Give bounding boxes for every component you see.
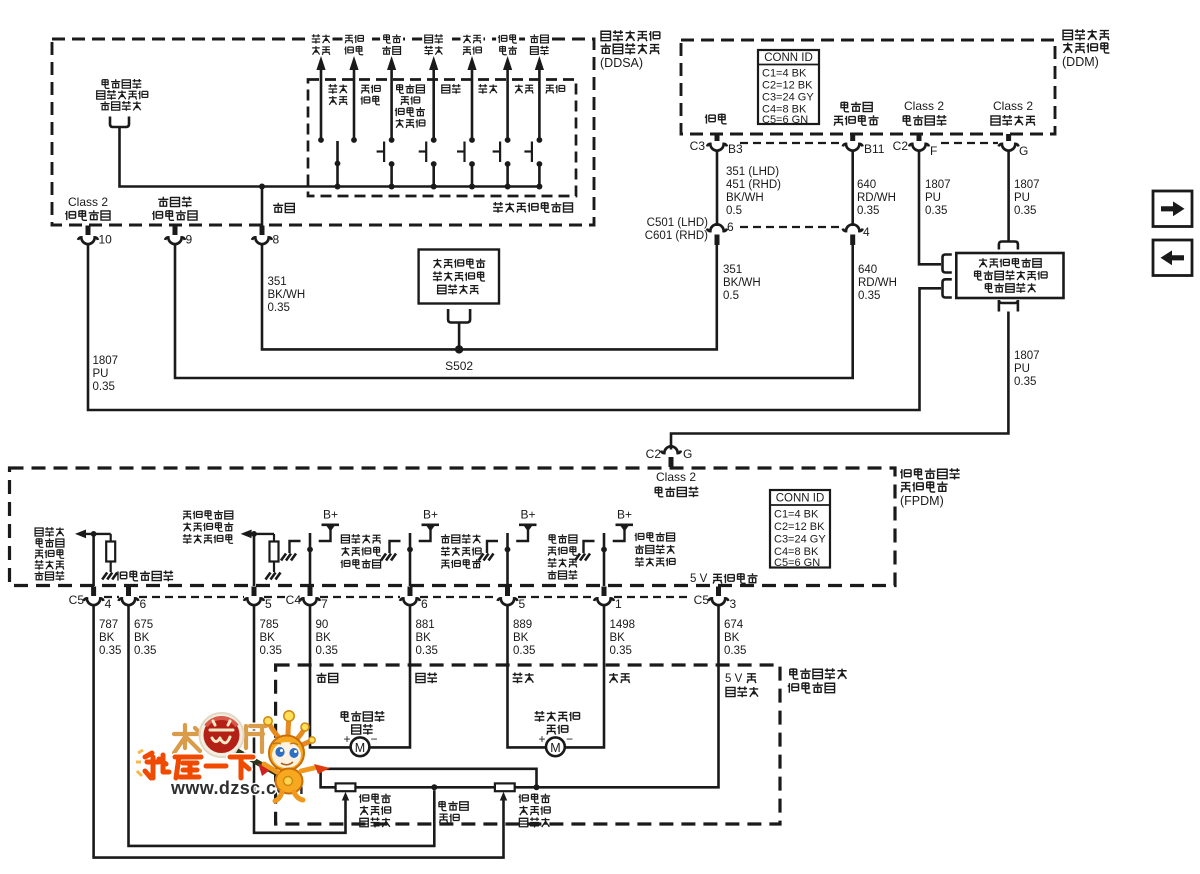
wire pot1 right lead to pot2 left lead [355,786,495,789]
wire label 1498 BK 0.35 [610,619,636,657]
ground contact (mirror motor right control) [381,541,401,561]
wire label 1807 PU 0.35 (left) [93,355,119,393]
svg-text:881: 881 [416,619,435,631]
label fold/unfold export [395,84,425,128]
wire label 90 BK 0.35 [316,619,338,657]
wire arrow junction to pin C5-4 [92,534,95,586]
svg-text:PU: PU [93,368,109,380]
svg-text:0.5: 0.5 [726,205,742,217]
label horizontal position sensor signal [359,793,390,827]
ground contact (mirror motor left control) [281,541,301,561]
svg-text:C2: C2 [893,139,909,153]
wire 785 BK: pin C5-5 to pot1 wiper [254,606,346,833]
label mirror motor control [441,534,481,568]
connector pin 1 (FPDM bottom) [594,587,622,612]
svg-text:0.35: 0.35 [260,645,282,657]
connector C501 pin 6 [707,220,734,245]
label select-left [328,84,347,105]
wire battery 640 RD/WH: pin9 to C501-4 [175,245,853,379]
bracket upper-left of DLC box [943,255,952,273]
svg-text:0.35: 0.35 [724,645,746,657]
module box FPDM (front passenger door module) [10,468,896,586]
svg-text:Class 2: Class 2 [656,470,696,484]
svg-text:G: G [1019,144,1028,158]
nav box arrow right [1153,191,1192,227]
wire label 787 BK 0.35 [99,619,121,657]
svg-text:4: 4 [105,597,112,611]
resistor pull (vertical position) [106,534,115,572]
svg-text:−: − [370,732,377,746]
svg-text:6: 6 [727,220,734,234]
wire Class2 1807 PU: pin10 to DLC lower bracket [88,245,941,411]
reference: power window schematic in door [97,79,148,111]
svg-text:M: M [355,741,365,755]
svg-text:+: + [538,732,545,746]
wire B11 to C501 pin 4 [851,150,854,226]
potentiometer horizontal position sensor [336,783,356,791]
connector pin B11 [843,134,885,156]
connector C2 pin G at FPDM top [646,446,693,467]
box exterior mirror - passenger side [276,665,780,824]
label ground (DDSA pin 8) [273,203,294,213]
wire G to DLC top bracket [1007,150,1010,242]
logic circuit arrow down [461,32,484,143]
reference: door control module schematic box [419,250,499,304]
ground (vertical sensor resistor) [102,573,117,580]
wire DLC bottom to FPDM C2-G [671,312,1008,450]
svg-text:C3=24 GY: C3=24 GY [762,92,814,104]
svg-text:PU: PU [1014,192,1030,204]
B+ supply (mirror motor down control) [516,508,536,542]
wire ground 351 BK/WH: pin8 to C501-6 via S502 [262,245,717,350]
svg-text:1807: 1807 [93,355,119,367]
wire label 674 BK 0.35 [724,619,746,657]
svg-text:BK: BK [260,632,276,644]
label wire right [416,673,437,684]
wiper arrow pot2 [500,792,507,801]
connector C501 dashes [740,226,842,228]
svg-text:5: 5 [265,597,272,611]
wire 881 BK: pin 6 to horizontal motor - [369,606,411,748]
svg-text:0.35: 0.35 [99,645,121,657]
svg-text:C1=4 BK: C1=4 BK [762,68,807,80]
svg-text:C5: C5 [69,593,85,607]
label DDSA name [600,30,660,70]
module box DDSA (driver door switch assembly) [52,39,594,225]
motor M horizontal [343,732,377,756]
junction dot low reference [431,784,437,790]
svg-text:5 V: 5 V [725,673,743,685]
label battery positive voltage (DDM) [834,102,878,126]
svg-text:BK: BK [134,632,150,644]
svg-text:675: 675 [134,619,153,631]
connector pin 6 (FPDM bottom) [400,587,428,612]
svg-text:4: 4 [863,225,870,239]
connector C501 pin 4 [843,224,870,245]
svg-text:RD/WH: RD/WH [857,192,896,204]
watermark dzsc logo [136,713,304,798]
bracket lower-left of DLC box [943,279,952,297]
svg-text:BK: BK [610,632,626,644]
push switch contact [377,142,395,187]
switch pole wire to pin (up control) [601,533,607,586]
off-page bracket below door control module box [448,309,470,323]
svg-text:C5: C5 [694,593,710,607]
svg-text:C2=12 BK: C2=12 BK [762,80,813,92]
svg-text:1807: 1807 [925,179,951,191]
logic circuit arrow select-right [343,32,366,143]
wire label 675 BK 0.35 [134,619,156,657]
switch pole wire to pin (left control) [307,533,313,586]
wire label 1807 PU 0.35 (G) [1014,179,1040,217]
connector C2 pin F [893,134,938,158]
label ground (DDM) [705,114,727,124]
junction dots on ground bus [259,184,542,190]
label Class 2 serial data (FPDM) [655,470,698,497]
svg-text:C2=12 BK: C2=12 BK [774,521,825,533]
svg-text:S502: S502 [445,359,473,373]
connector dashes C2 [941,142,998,144]
module box DDM (driver door module) [681,40,1055,134]
svg-text:B3: B3 [728,142,743,156]
svg-text:PU: PU [1014,363,1030,375]
svg-text:BK/WH: BK/WH [723,277,761,289]
wire F to DLC upper bracket [919,150,941,264]
svg-text:+: + [343,732,350,746]
svg-text:351: 351 [723,264,742,276]
svg-text:0.35: 0.35 [134,645,156,657]
svg-text:6: 6 [140,597,147,611]
svg-text:351: 351 [268,276,287,288]
svg-text:0.35: 0.35 [513,645,535,657]
logic circuit arrow fold [380,32,403,143]
svg-text:90: 90 [316,619,329,631]
label left [515,84,533,93]
push switch contact [493,142,511,187]
box exterior mirror switch [308,80,576,197]
wire 5V bypass loop to pot1 left [321,769,537,788]
svg-text:M: M [550,741,560,755]
label 5V reference [690,573,758,585]
svg-text:Class 2: Class 2 [68,195,108,209]
connector dashes C3 [740,142,843,144]
svg-text:(DDSA): (DDSA) [600,56,643,70]
svg-text:5: 5 [519,597,526,611]
logic circuit arrow select-left [310,32,333,143]
svg-text:7: 7 [321,597,328,611]
svg-text:674: 674 [724,619,744,631]
svg-text:C5=6 GN: C5=6 GN [774,557,820,569]
svg-text:1807: 1807 [1014,179,1040,191]
watermark mascot [264,711,330,801]
connector pin 3 (FPDM bottom) [709,587,737,612]
CONN ID table DDM [758,50,819,126]
nav box arrow left [1153,240,1192,276]
label wire down [513,673,534,684]
wire B3 to C501 pin 6 [716,150,719,226]
B+ supply (mirror motor up control) [613,508,633,542]
connector dashed line (FPDM bottom) [104,596,692,598]
svg-text:C3=24 GY: C3=24 GY [774,534,826,546]
ground (horizontal sensor resistor) [266,573,281,580]
label Class 2 serial data (DDM pin G) [991,99,1035,126]
label exterior mirror passenger side [788,668,847,693]
logic circuit arrow left [496,32,519,143]
connector pin 10 of DDSA [78,226,112,247]
label Class 2 serial data (DDSA pin 10) [65,195,110,220]
wire 787 BK: pin C5-4 to pot2 wiper [94,606,504,858]
svg-text:B+: B+ [323,508,338,522]
label battery positive voltage (DDSA pin 9) [152,197,197,221]
svg-text:0.35: 0.35 [316,645,338,657]
B+ supply (mirror motor right control) [419,508,439,542]
svg-text:8: 8 [273,233,280,247]
wire label 351/451 BK/WH 0.5 [726,166,781,217]
push switch contact [419,142,437,187]
label FPDM name [900,468,960,508]
connector pin 5 (FPDM bottom) [498,587,526,612]
label exterior mirror switch [493,202,572,213]
connector pin 8 of DDSA [252,226,279,247]
label down [478,84,497,94]
bracket bottom of DLC box [999,300,1018,312]
logic circuit arrow up [422,32,445,143]
off-page bracket below reference [110,117,129,128]
wire label 889 BK 0.35 [513,619,535,657]
label horizontal direction motor [341,711,384,735]
wire 889 BK: pin 5 to vertical motor + [508,606,548,748]
connector pin 7 (FPDM bottom) [300,587,328,612]
signal arrow (horizontal position) [241,530,274,539]
wiper arrow pot1 [342,792,349,801]
svg-text:0.35: 0.35 [925,205,947,217]
wire label 1807 PU 0.35 (to FPDM) [1014,350,1040,388]
wire 1498 BK: pin 1 to vertical motor - [564,606,604,748]
label 5V reference (mirror) [725,673,758,697]
label wire up [609,673,630,683]
svg-text:BK: BK [513,632,529,644]
svg-text:B+: B+ [520,508,535,522]
svg-text:PU: PU [925,192,941,204]
svg-text:CONN ID: CONN ID [776,493,825,505]
wire arrow junction to pin C5-5 [253,534,256,586]
svg-text:10: 10 [99,233,113,247]
connector pin G [999,134,1029,158]
svg-text:BK: BK [416,632,432,644]
connector pin 9 of DDSA [165,226,192,247]
svg-text:5 V: 5 V [690,573,708,585]
svg-text:787: 787 [99,619,118,631]
potentiometer vertical position sensor [495,783,515,791]
svg-text:CONN ID: CONN ID [764,52,813,64]
svg-text:Class 2: Class 2 [993,99,1033,113]
connector C501/C601 labels [645,217,708,242]
svg-text:C1=4 BK: C1=4 BK [774,509,819,521]
wire 674 BK: pin C5-3 to potentiometer high side [515,606,719,788]
svg-text:C501 (LHD): C501 (LHD) [647,217,709,229]
svg-text:(DDM): (DDM) [1062,55,1099,69]
label low reference [117,571,174,582]
wire bracket to splice [458,323,461,350]
svg-text:F: F [930,144,937,158]
svg-text:0.35: 0.35 [1014,376,1036,388]
svg-text:785: 785 [260,619,279,631]
selector switch pole [335,141,341,187]
wire ground bus to pin 8 [261,187,264,227]
push switch contact [457,142,475,187]
motor M vertical [538,732,573,756]
wire label 351 BK/WH 0.5 (below C501) [723,264,761,302]
svg-text:1807: 1807 [1014,350,1040,362]
wire 90 BK: pin C4-7 to horizontal motor + [310,606,352,748]
svg-text:0.35: 0.35 [268,302,290,314]
svg-text:3: 3 [730,597,737,611]
svg-text:(FPDM): (FPDM) [900,494,944,508]
wire label 640 RD/WH 0.35 (below C501) [858,264,897,302]
svg-text:C2: C2 [646,447,662,461]
svg-text:BK: BK [316,632,332,644]
svg-text:0.35: 0.35 [858,290,880,302]
ground contact (mirror motor up control) [575,541,595,561]
svg-text:6: 6 [421,597,428,611]
svg-text:B+: B+ [617,508,632,522]
wire from reference to ground bus [120,127,540,187]
svg-text:0.35: 0.35 [1014,205,1036,217]
wire label 785 BK 0.35 [260,619,282,657]
svg-text:0.35: 0.35 [416,645,438,657]
svg-text:B+: B+ [423,508,438,522]
svg-text:B11: B11 [864,142,885,156]
svg-text:9: 9 [186,233,193,247]
connector pin 4 (FPDM bottom) [84,587,112,612]
junction dot 5V ref [534,784,540,790]
svg-text:C3: C3 [690,139,706,153]
svg-text:C601 (RHD): C601 (RHD) [645,230,708,242]
svg-text:RD/WH: RD/WH [858,277,897,289]
connector pin 5 (FPDM bottom) [244,587,272,612]
svg-text:640: 640 [857,179,876,191]
svg-text:C5=6 GN: C5=6 GN [762,114,808,126]
label Class 2 serial data (DDM pin F) [903,99,946,126]
resistor pull (horizontal position) [270,534,279,572]
svg-text:0.35: 0.35 [610,645,632,657]
svg-text:0.35: 0.35 [93,381,115,393]
switch pole wire to pin (right control) [407,533,413,586]
svg-text:1498: 1498 [610,619,636,631]
logic circuit arrow right [528,32,551,143]
svg-text:1: 1 [615,597,622,611]
label mirror motor control [548,534,578,580]
label up [442,84,461,94]
CONN ID table FPDM [770,490,830,569]
DLC reference box (data link connector schematic) [956,253,1063,298]
label right [546,85,565,94]
bracket top of DLC box [999,242,1018,250]
push switch contact [524,142,542,187]
wire label 1807 PU 0.35 (F) [925,179,951,217]
svg-text:889: 889 [513,619,532,631]
label passenger mirror vertical position sensor signal [35,527,65,581]
svg-text:G: G [683,447,692,461]
svg-text:−: − [566,732,573,746]
wire label 640 RD/WH 0.35 [857,179,896,217]
switch pole wire to pin (down control) [505,533,511,586]
svg-text:640: 640 [858,264,877,276]
svg-text:0.5: 0.5 [723,290,739,302]
label select-right [361,85,381,105]
svg-text:BK: BK [99,632,115,644]
svg-text:Class 2: Class 2 [904,99,944,113]
label DDM name [1062,29,1109,69]
connector pin 6 (FPDM bottom) [119,587,147,612]
signal arrow (vertical position) [75,530,111,539]
label vertical direction motor [535,711,580,735]
wire label 881 BK 0.35 [416,619,438,657]
label vertical position sensor signal [519,793,550,827]
B+ supply (mirror motor left control) [319,508,339,542]
svg-text:0.35: 0.35 [857,205,879,217]
connector C3 pin B3 [690,134,743,156]
label passenger mirror horizontal position sensor signal [183,510,233,544]
label low reference (mirror) [439,801,468,823]
wire 675 BK: pin 6 to low reference junction [129,606,435,846]
label mirror motor control [341,534,381,568]
label mirror motor control [635,532,675,567]
ground contact (mirror motor down control) [479,541,499,561]
svg-text:BK/WH: BK/WH [726,192,764,204]
svg-text:BK: BK [724,632,740,644]
wire label 351 BK/WH 0.35 (below pin 8) [268,276,306,314]
label wire left [316,673,337,683]
svg-text:451 (RHD): 451 (RHD) [726,179,781,191]
svg-text:BK/WH: BK/WH [268,289,306,301]
splice S502 [445,345,473,373]
svg-text:351 (LHD): 351 (LHD) [726,166,779,178]
